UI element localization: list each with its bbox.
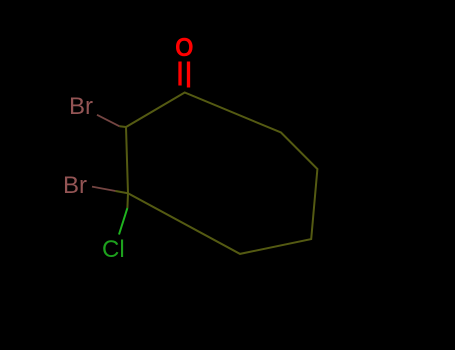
bond C2-Br1 (97, 115, 120, 127)
atom label Br2 (63, 172, 87, 200)
bond C3-Br2 (92, 187, 116, 191)
atom label Br1 (69, 93, 93, 121)
atom label O (175, 32, 194, 63)
carbonyl double bond C1=O (178, 62, 181, 86)
atom label Cl (102, 236, 125, 264)
ring (cycloheptanone skeleton) (126, 93, 317, 254)
bond C3-Cl (126, 193, 129, 208)
